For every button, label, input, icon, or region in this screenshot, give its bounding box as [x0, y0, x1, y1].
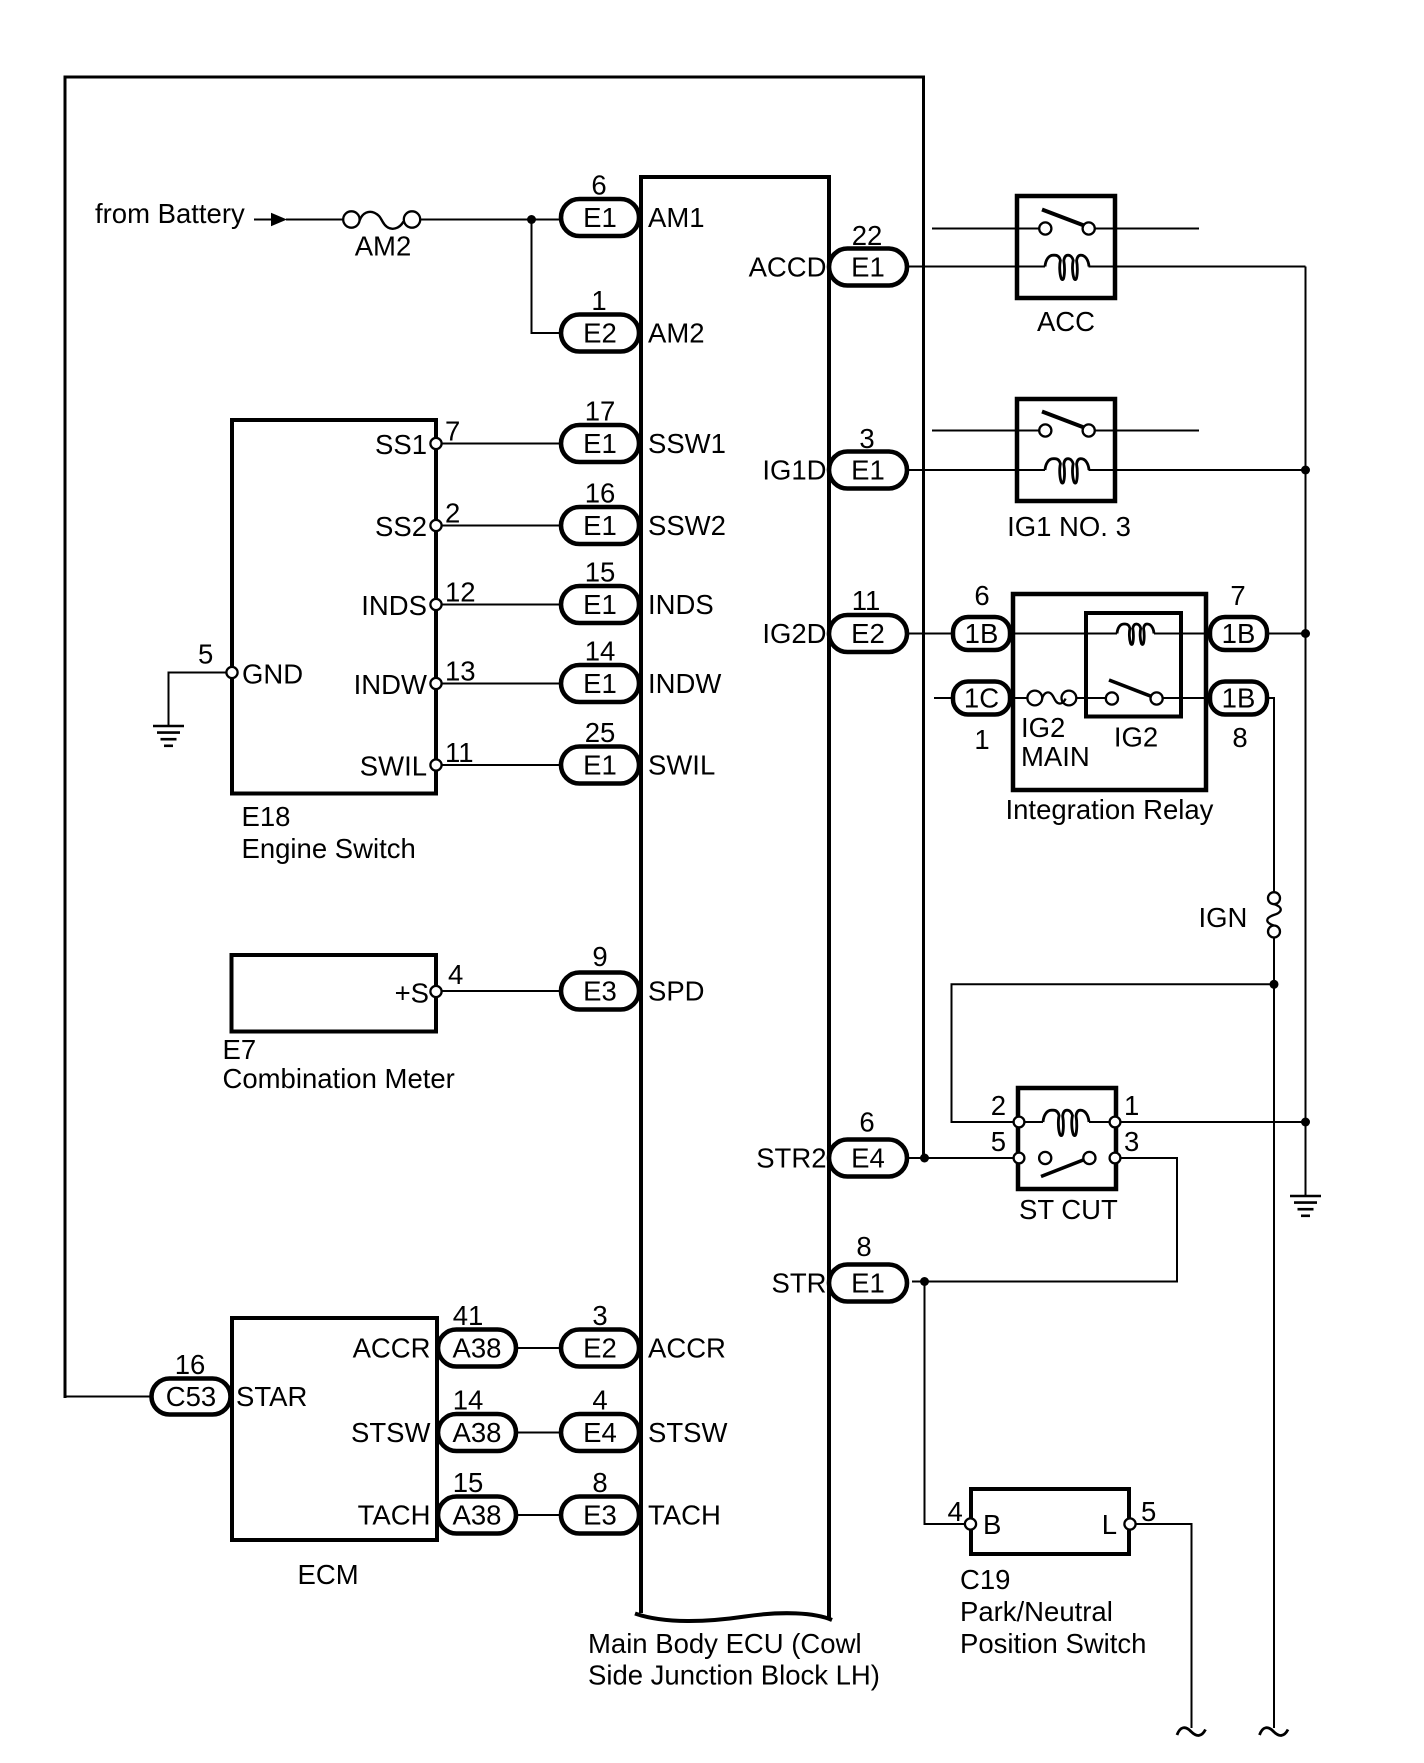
wire frame left vertical: [64, 77, 67, 1398]
coil ST CUT: [1043, 1110, 1089, 1135]
label INDW: [648, 668, 721, 699]
svg-text:E2: E2: [583, 318, 617, 349]
svg-text:+S: +S: [395, 978, 429, 1009]
pin number 1: [591, 285, 606, 316]
label ACC: [1037, 306, 1095, 337]
svg-text:A38: A38: [453, 1333, 502, 1364]
pin E7 +S: [430, 986, 441, 997]
svg-text:14: 14: [585, 636, 616, 667]
label SPD: [648, 976, 705, 1007]
pin E18 GND: [226, 667, 237, 678]
svg-text:SWIL: SWIL: [360, 751, 427, 782]
connector A38 pin 41 (ACCR): [438, 1330, 516, 1367]
svg-text:1: 1: [974, 724, 989, 755]
label SWIL: [360, 751, 427, 782]
pin number 14: [585, 636, 616, 667]
label INDW: [354, 669, 427, 700]
ST CUT switch contacts: [1039, 1152, 1095, 1164]
wire ACC switch right stub: [1094, 228, 1199, 230]
wire branch down to E2 AM2: [532, 220, 562, 334]
connector E1 pin 25 (SWIL): [561, 747, 639, 784]
label ST CUT: [1019, 1194, 1118, 1225]
svg-text:14: 14: [453, 1385, 484, 1416]
svg-text:E4: E4: [583, 1417, 617, 1448]
label SSW2: [648, 510, 726, 541]
pin number 8: [592, 1467, 607, 1498]
label ECM ACCR: [353, 1333, 431, 1364]
arrow battery feed: [254, 213, 343, 227]
wire R1 down to break: [1273, 984, 1275, 1728]
svg-text:E2: E2: [583, 1333, 617, 1364]
pin number 22: [852, 220, 883, 251]
svg-text:1C: 1C: [964, 683, 999, 714]
label TACH ECU: [648, 1500, 721, 1531]
IG2 switch contacts: [1106, 692, 1163, 704]
svg-text:3: 3: [592, 1300, 607, 1331]
wire fuse AM2 to E1 AM1: [420, 219, 561, 221]
svg-text:22: 22: [852, 220, 883, 251]
label AM2: [648, 318, 705, 349]
svg-text:Side Junction Block LH): Side Junction Block LH): [588, 1660, 880, 1691]
wire IG1 switch left stub: [932, 430, 1040, 432]
label GND: [242, 659, 303, 690]
pin number 1 ST CUT: [1124, 1090, 1139, 1121]
ACC switch blade: [1042, 210, 1084, 226]
svg-text:Integration Relay: Integration Relay: [1006, 794, 1214, 825]
svg-text:12: 12: [445, 577, 476, 608]
svg-text:15: 15: [453, 1467, 484, 1498]
svg-text:E18: E18: [242, 801, 291, 832]
pin number 4 C19: [948, 1496, 963, 1527]
pin number 5: [198, 639, 213, 670]
connector E2 pin 11 (IG2D): [829, 615, 907, 652]
connector E1 pin 6 (AM1): [561, 199, 639, 236]
node 1B7-R2: [1301, 629, 1310, 638]
wire node to ST CUT pin2: [952, 984, 1275, 1122]
connector A38 pin 14 (STSW): [438, 1414, 516, 1451]
wire ACCD to ACC coil: [907, 266, 1045, 268]
svg-text:4: 4: [448, 959, 463, 990]
wire IG2D to 1B6: [907, 633, 953, 635]
pin number 6: [591, 170, 606, 201]
label IG2 MAIN line1: [1021, 712, 1065, 743]
svg-text:E1: E1: [583, 750, 617, 781]
pin ST CUT 3: [1110, 1153, 1121, 1164]
label C19: [960, 1564, 1010, 1595]
svg-text:8: 8: [1232, 722, 1247, 753]
label Main Body ECU line2: [588, 1660, 880, 1691]
svg-text:ST CUT: ST CUT: [1019, 1194, 1118, 1225]
wire GND to ground: [169, 673, 228, 726]
pin number 41: [453, 1300, 484, 1331]
svg-text:5: 5: [198, 639, 213, 670]
label Park/Neutral: [960, 1596, 1113, 1627]
ST CUT switch blade: [1041, 1159, 1087, 1177]
ECU box Main Body ECU: [635, 177, 832, 1621]
svg-text:Combination Meter: Combination Meter: [223, 1063, 455, 1094]
svg-text:16: 16: [585, 478, 616, 509]
break symbol C19: [1177, 1728, 1206, 1736]
label STR: [772, 1268, 827, 1299]
pin E18 INDS: [430, 599, 441, 610]
pin number 4: [448, 959, 463, 990]
svg-text:A38: A38: [453, 1417, 502, 1448]
connector E1 pin 15 (INDS): [561, 586, 639, 623]
svg-text:17: 17: [585, 396, 616, 427]
label ACCR ECU: [648, 1333, 726, 1364]
wire R2 vertical: [1305, 267, 1307, 1196]
svg-text:5: 5: [1141, 1496, 1156, 1527]
pin number 8 STR: [856, 1231, 871, 1262]
ground symbol E18: [153, 726, 184, 746]
svg-text:E3: E3: [583, 1500, 617, 1531]
label +S: [395, 978, 429, 1009]
wire INDW to E1: [441, 683, 561, 685]
pin number 12: [445, 577, 476, 608]
label AM1: [648, 202, 705, 233]
label fuse AM2: [355, 231, 412, 262]
svg-text:13: 13: [445, 656, 476, 687]
wire +S to E3 SPD: [441, 990, 561, 992]
wire STR down to C19 B: [925, 1282, 966, 1525]
svg-text:STSW: STSW: [351, 1417, 430, 1448]
pin E18 SS2: [430, 520, 441, 531]
node battery branch: [527, 215, 536, 224]
wire 1B7 to R2: [1267, 633, 1306, 635]
svg-text:E1: E1: [851, 455, 885, 486]
svg-text:AM2: AM2: [355, 231, 412, 262]
svg-text:GND: GND: [242, 659, 303, 690]
svg-text:E1: E1: [583, 510, 617, 541]
node IGN-STCUT: [1270, 980, 1279, 989]
pin number 11: [852, 585, 881, 616]
svg-text:11: 11: [445, 737, 474, 768]
IG2 switch blade: [1109, 680, 1153, 697]
wire fuse to IG2 switch: [1076, 697, 1106, 699]
box IG2 relay inner: [1086, 613, 1181, 717]
label STR2: [756, 1143, 826, 1174]
wire ACC coil to R2 top: [1089, 266, 1306, 268]
svg-text:STSW: STSW: [648, 1417, 727, 1448]
wire INDS to E1: [441, 604, 561, 606]
wire A38 to E2: [516, 1347, 561, 1349]
wire ST CUT pin1 to R2: [1121, 1121, 1306, 1123]
box E7 Combination Meter: [232, 955, 437, 1032]
label IG2 relay: [1114, 722, 1158, 753]
svg-text:INDS: INDS: [648, 589, 714, 620]
svg-text:SPD: SPD: [648, 976, 705, 1007]
wire STR2 to ST CUT pin5: [907, 1157, 1014, 1159]
coil IG2: [1117, 624, 1154, 644]
svg-text:SS2: SS2: [375, 511, 427, 542]
label Main Body ECU line1: [588, 1628, 862, 1659]
svg-text:A38: A38: [453, 1500, 502, 1531]
pin number 5 ST CUT: [991, 1126, 1006, 1157]
connector 1B pin 7: [1210, 617, 1267, 650]
svg-text:IGN: IGN: [1199, 902, 1248, 933]
pin number 6 STR2: [859, 1107, 874, 1138]
svg-text:2: 2: [991, 1090, 1006, 1121]
wire IG2 coil to 1B7: [1154, 633, 1210, 635]
svg-text:1B: 1B: [1222, 683, 1256, 714]
wire SS1 to E1: [441, 443, 561, 445]
svg-text:SWIL: SWIL: [648, 750, 715, 781]
pin E18 SS1: [430, 438, 441, 449]
label IG2D: [762, 618, 826, 649]
connector 1B pin 6: [953, 617, 1010, 650]
label STAR: [236, 1381, 307, 1412]
connector E3 pin 9 (SPD): [561, 973, 639, 1010]
svg-text:ACCD: ACCD: [749, 252, 827, 283]
wire ACC switch left stub: [932, 228, 1040, 230]
connector E1 pin 16 (SSW2): [561, 507, 639, 544]
label ECM TACH: [358, 1500, 431, 1531]
svg-text:3: 3: [1124, 1126, 1139, 1157]
svg-text:E1: E1: [583, 428, 617, 459]
svg-text:C19: C19: [960, 1564, 1010, 1595]
coil IG1: [1045, 459, 1089, 483]
pin C19 L: [1124, 1518, 1135, 1529]
pin number 3 ST CUT: [1124, 1126, 1139, 1157]
node STR2-frame: [920, 1154, 929, 1163]
label IG2 MAIN line2: [1021, 741, 1090, 772]
wire ST CUT pin3 to STR node: [912, 1158, 1177, 1282]
pin number 4: [592, 1385, 607, 1416]
label SS2: [375, 511, 427, 542]
fuse IG2 MAIN: [1027, 691, 1076, 706]
label B: [983, 1509, 1001, 1540]
pin number 6 1B: [974, 580, 989, 611]
pin number 1 1C: [974, 724, 989, 755]
wire 1B8 down to IGN fuse: [1267, 698, 1274, 892]
connector C53 pin 16 (STAR): [152, 1379, 231, 1415]
pin number 15: [453, 1467, 484, 1498]
wire A38 to E3: [516, 1514, 561, 1516]
svg-text:E3: E3: [583, 976, 617, 1007]
svg-text:IG2: IG2: [1021, 712, 1065, 743]
wire SWIL to E1: [441, 764, 561, 766]
connector E3 pin 8 (TACH): [561, 1497, 639, 1534]
wire SS2 to E1: [441, 525, 561, 527]
svg-text:E1: E1: [583, 589, 617, 620]
pin number 3: [859, 423, 874, 454]
svg-text:8: 8: [856, 1231, 871, 1262]
pin E18 INDW: [430, 678, 441, 689]
svg-text:6: 6: [974, 580, 989, 611]
svg-text:15: 15: [585, 557, 616, 588]
svg-text:E4: E4: [851, 1143, 885, 1174]
connector E1 pin 22 (ACCD): [829, 249, 907, 286]
label SSW1: [648, 428, 726, 459]
connector 1C pin 1: [953, 682, 1010, 715]
pin number 7: [445, 416, 460, 447]
connector E1 pin 17 (SSW1): [561, 425, 639, 462]
svg-text:C53: C53: [166, 1381, 216, 1412]
pin number 2: [445, 498, 460, 529]
pin number 3: [592, 1300, 607, 1331]
pin number 16: [585, 478, 616, 509]
pin ST CUT 5: [1014, 1153, 1025, 1164]
svg-text:Position Switch: Position Switch: [960, 1628, 1146, 1659]
wire 1C to fuse IG2 MAIN: [1010, 697, 1028, 699]
svg-text:ACC: ACC: [1037, 306, 1095, 337]
ground symbol right: [1290, 1196, 1321, 1216]
pin C19 B: [965, 1518, 976, 1529]
relay box ST CUT: [1018, 1088, 1116, 1189]
svg-text:ACCR: ACCR: [648, 1333, 726, 1364]
svg-text:MAIN: MAIN: [1021, 741, 1090, 772]
label E18: [242, 801, 291, 832]
svg-text:TACH: TACH: [648, 1500, 721, 1531]
connector E1 pin 3 (IG1D): [829, 452, 907, 489]
label SS1: [375, 429, 427, 460]
label INDS: [361, 590, 427, 621]
connector E2 pin 1 (AM2): [561, 315, 639, 352]
relay box IG1 NO. 3: [1017, 399, 1115, 501]
pin E18 SWIL: [430, 759, 441, 770]
break symbol R1: [1260, 1728, 1289, 1736]
svg-text:3: 3: [859, 423, 874, 454]
svg-text:2: 2: [445, 498, 460, 529]
svg-text:STAR: STAR: [236, 1381, 307, 1412]
wire C53-to-frame: [65, 1396, 152, 1398]
connector E1 pin 8 (STR): [829, 1265, 907, 1302]
label STSW ECU: [648, 1417, 727, 1448]
svg-text:IG1 NO. 3: IG1 NO. 3: [1007, 511, 1131, 542]
label Engine Switch: [242, 833, 416, 864]
wire ST CUT coil row inner: [1019, 1121, 1115, 1123]
svg-text:6: 6: [591, 170, 606, 201]
svg-text:E1: E1: [583, 202, 617, 233]
wire IG2 switch to 1B8: [1162, 697, 1210, 699]
wire A38 to E4: [516, 1432, 561, 1434]
label ECM: [298, 1559, 359, 1590]
svg-text:INDS: INDS: [361, 590, 427, 621]
label L: [1102, 1509, 1117, 1540]
wire frame right vertical to STR2 node: [922, 76, 925, 1159]
pin number 25: [585, 717, 616, 748]
wire frame top horizontal: [64, 76, 924, 79]
svg-text:7: 7: [445, 416, 460, 447]
pin number 11: [445, 737, 474, 768]
svg-text:1: 1: [591, 285, 606, 316]
box E18 Engine Switch: [232, 420, 436, 794]
connector A38 pin 15 (TACH): [438, 1497, 516, 1534]
label ACCD: [749, 252, 827, 283]
svg-text:7: 7: [1230, 580, 1245, 611]
svg-text:9: 9: [592, 941, 607, 972]
box ECM: [232, 1318, 437, 1540]
svg-text:IG2: IG2: [1114, 722, 1158, 753]
svg-text:4: 4: [592, 1385, 607, 1416]
pin number 2 ST CUT: [991, 1090, 1006, 1121]
svg-text:1B: 1B: [965, 618, 999, 649]
svg-text:1B: 1B: [1222, 618, 1256, 649]
svg-text:Park/Neutral: Park/Neutral: [960, 1596, 1113, 1627]
pin number 16: [175, 1349, 206, 1380]
connector E4 pin 6 (STR2): [829, 1140, 907, 1177]
svg-text:5: 5: [991, 1126, 1006, 1157]
label ECM STSW: [351, 1417, 430, 1448]
svg-text:AM2: AM2: [648, 318, 705, 349]
label IG1 NO. 3: [1007, 511, 1131, 542]
connector E2 pin 3 (ACCR): [561, 1330, 639, 1367]
svg-text:IG1D: IG1D: [762, 455, 826, 486]
wire 1B6 to IG2 coil: [1010, 633, 1117, 635]
svg-text:SSW1: SSW1: [648, 428, 726, 459]
IG1 switch blade: [1042, 412, 1084, 428]
svg-text:B: B: [983, 1509, 1001, 1540]
svg-text:E1: E1: [583, 668, 617, 699]
IG1 switch contacts: [1039, 424, 1095, 436]
label INDS: [648, 589, 714, 620]
wire 1C stub: [934, 697, 953, 699]
coil ACC: [1045, 255, 1089, 279]
svg-text:Engine Switch: Engine Switch: [242, 833, 416, 864]
pin ST CUT 1: [1110, 1117, 1121, 1128]
label E7: [223, 1034, 257, 1065]
svg-text:ACCR: ACCR: [353, 1333, 431, 1364]
wire IG1 switch right stub: [1094, 430, 1199, 432]
svg-text:AM1: AM1: [648, 202, 705, 233]
svg-text:E1: E1: [851, 252, 885, 283]
label IGN: [1199, 902, 1248, 933]
wire IG1 coil to R2: [1089, 469, 1306, 471]
svg-text:STR: STR: [772, 1268, 827, 1299]
label Position Switch: [960, 1628, 1146, 1659]
svg-text:TACH: TACH: [358, 1500, 431, 1531]
svg-text:STR2: STR2: [756, 1143, 826, 1174]
svg-text:E7: E7: [223, 1034, 257, 1065]
fuse IGN: [1267, 892, 1281, 937]
svg-text:INDW: INDW: [648, 668, 721, 699]
label SWIL: [648, 750, 715, 781]
wire IG1D to IG1 coil: [907, 469, 1045, 471]
connector 1B pin 8: [1210, 682, 1267, 715]
label from Battery: [95, 198, 245, 229]
svg-text:25: 25: [585, 717, 616, 748]
node IG1-R2: [1301, 466, 1310, 475]
label IG1D: [762, 455, 826, 486]
svg-text:IG2D: IG2D: [762, 618, 826, 649]
svg-text:SSW2: SSW2: [648, 510, 726, 541]
pin ST CUT 2: [1014, 1117, 1025, 1128]
svg-text:INDW: INDW: [354, 669, 427, 700]
svg-text:11: 11: [852, 585, 881, 616]
pin number 5 C19: [1141, 1496, 1156, 1527]
pin number 8 1B: [1232, 722, 1247, 753]
svg-text:E1: E1: [851, 1268, 885, 1299]
wire IGN fuse to node: [1273, 937, 1275, 984]
label Combination Meter: [223, 1063, 455, 1094]
fuse AM2: [343, 211, 420, 228]
node STR branch: [920, 1277, 929, 1286]
svg-text:L: L: [1102, 1509, 1117, 1540]
wire frame to C53: [65, 1396, 152, 1398]
node STCUT1-R2: [1301, 1118, 1310, 1127]
pin number 17: [585, 396, 616, 427]
svg-text:Main Body ECU (Cowl: Main Body ECU (Cowl: [588, 1628, 862, 1659]
relay box ACC: [1017, 196, 1115, 298]
box C19 Park/Neutral Position Switch: [971, 1489, 1129, 1554]
svg-text:E2: E2: [851, 618, 885, 649]
pin number 7 1B: [1230, 580, 1245, 611]
pin number 14: [453, 1385, 484, 1416]
svg-text:41: 41: [453, 1300, 484, 1331]
label Integration Relay: [1006, 794, 1214, 825]
pin number 9: [592, 941, 607, 972]
svg-text:8: 8: [592, 1467, 607, 1498]
